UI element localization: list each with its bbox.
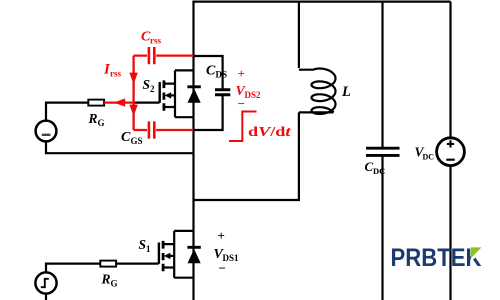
arrow Irss down 1 (129, 73, 137, 85)
source Vdc (437, 138, 465, 166)
transistor S2 leads (164, 70, 194, 117)
wire Cgs red wire (134, 129, 194, 131)
inductor L (299, 69, 336, 115)
svg-text:L: L (341, 84, 351, 100)
diode D2 triangle (188, 89, 201, 103)
svg-text:S: S (139, 237, 147, 252)
wire Vdc branch top (449, 2, 451, 138)
wire Vdc branch bottom (449, 166, 451, 300)
transistor S2 channel (162, 80, 165, 110)
svg-text:−: − (219, 261, 226, 276)
wire Crss top red wire (134, 54, 194, 56)
transistor S1 body arrow (169, 255, 175, 257)
wire Cds branch (194, 56, 223, 130)
wire VG1 bottom stub (45, 294, 47, 300)
svg-text:DS: DS (216, 70, 228, 80)
dv/dt step symbol (229, 112, 257, 142)
capacitor Crss (149, 47, 154, 64)
svg-text:GS: GS (131, 136, 143, 146)
diode D1 triangle (188, 249, 201, 263)
svg-text:R: R (88, 111, 98, 126)
svg-text:dV/dt: dV/dt (248, 125, 292, 140)
svg-text:1: 1 (146, 244, 151, 254)
svg-text:PRBTEK: PRBTEK (391, 244, 482, 272)
wire VG1 to RG1 (46, 264, 100, 273)
diode D2 bar (187, 85, 200, 88)
transistor S1 leads (163, 231, 193, 278)
wire VG2 return to source rail (46, 141, 194, 153)
wire VG2 to RG2 (46, 103, 88, 121)
wire S1 gate lead (116, 263, 159, 265)
wire red gate segment (104, 101, 134, 103)
svg-text:DC: DC (373, 166, 385, 176)
transistor S1 gate bar (158, 243, 160, 264)
svg-text:DS2: DS2 (245, 90, 262, 100)
svg-text:G: G (111, 279, 118, 289)
capacitor Cds (215, 90, 230, 95)
logo green triangle on K (471, 247, 482, 258)
svg-text:R: R (101, 272, 111, 287)
capacitor Cdc (366, 148, 400, 155)
svg-text:rss: rss (110, 69, 121, 79)
wire S2 gate lead (134, 101, 160, 103)
resistor RG2 (88, 100, 104, 106)
transistor S2 body arrow (170, 94, 176, 96)
wire Cdc branch bottom (381, 156, 383, 300)
transistor S1 channel (162, 241, 165, 271)
source VG2 (36, 121, 57, 142)
wire Cdc branch top (381, 2, 383, 148)
diode D1 bar (187, 246, 200, 249)
svg-text:rss: rss (150, 36, 161, 46)
svg-text:+: + (218, 228, 225, 243)
source VG1 (35, 272, 56, 293)
wire main vertical rail (192, 1, 194, 300)
svg-text:C: C (206, 64, 216, 79)
wire red vertical Irss path (132, 56, 134, 130)
wire inductor branch top (298, 2, 300, 68)
wire top bus (194, 1, 451, 3)
svg-text:2: 2 (150, 84, 155, 94)
svg-text:DC: DC (423, 153, 435, 162)
arrow Irss down 2 (129, 105, 137, 117)
transistor S2 gate bar (158, 82, 160, 103)
logo K arm white mask (471, 246, 484, 261)
wire inductor branch bottom (194, 112, 299, 200)
svg-text:+: + (238, 66, 245, 81)
resistor RG1 (100, 261, 116, 267)
svg-text:S: S (143, 77, 151, 92)
svg-text:G: G (98, 118, 105, 128)
arrow Irss left into gate (114, 98, 126, 106)
capacitor Cgs (149, 121, 154, 138)
svg-text:C: C (121, 130, 131, 145)
svg-text:−: − (238, 96, 245, 111)
